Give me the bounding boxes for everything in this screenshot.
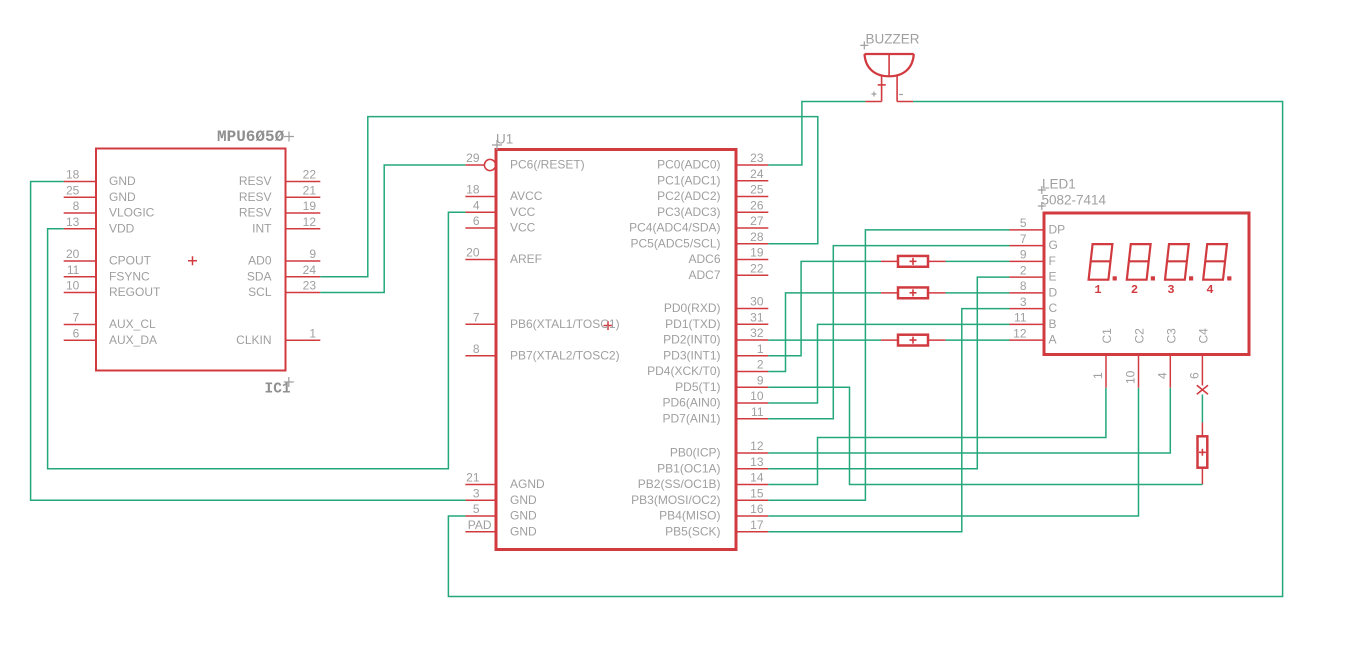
wire IC1 SCL to U1 PC6/RESET — [320, 165, 465, 293]
IC U1 body — [496, 150, 736, 550]
svg-text:E: E — [1049, 270, 1057, 284]
pin 11 FSYNC (IC1 left) — [64, 263, 150, 283]
svg-text:AUX_DA: AUX_DA — [109, 333, 157, 347]
svg-text:1: 1 — [757, 342, 764, 356]
pin 6 AUX_DA (IC1 left) — [64, 326, 157, 346]
pin 20 AREF (U1 left) — [465, 246, 542, 266]
svg-text:PB6(XTAL1/TOSC1): PB6(XTAL1/TOSC1) — [510, 317, 620, 331]
svg-text:RESV: RESV — [239, 174, 272, 188]
wire net F right: LED1 F to R1 — [946, 260, 1010, 262]
svg-text:PC2(ADC2): PC2(ADC2) — [657, 189, 720, 203]
svg-text:8: 8 — [473, 342, 480, 356]
svg-text:8: 8 — [73, 199, 80, 213]
pin 17 PB5(SCK) (U1 right) — [665, 518, 768, 538]
buzzer pin + stub — [865, 101, 881, 103]
svg-text:10: 10 — [750, 389, 764, 403]
svg-text:PC0(ADC0): PC0(ADC0) — [657, 158, 720, 172]
svg-text:9: 9 — [309, 247, 316, 261]
svg-text:16: 16 — [750, 502, 764, 516]
svg-text:22: 22 — [303, 168, 317, 182]
buzzer pin - stub — [897, 101, 913, 103]
svg-text:VCC: VCC — [510, 205, 536, 219]
svg-text:11: 11 — [1014, 311, 1027, 325]
svg-text:RESV: RESV — [239, 190, 272, 204]
pin 3 GND (U1 left) — [465, 486, 537, 506]
svg-text:6: 6 — [473, 214, 480, 228]
pin 24 PC1(ADC1) (U1 right) — [657, 167, 768, 187]
pin 12 A (LED1 left) — [1010, 326, 1057, 346]
IC1 origin cross (red) — [188, 256, 197, 265]
svg-text:AUX_CL: AUX_CL — [109, 317, 156, 331]
svg-text:D: D — [1049, 285, 1058, 299]
svg-text:7: 7 — [473, 310, 480, 324]
pin 8 VLOGIC (IC1 left) — [64, 199, 155, 219]
svg-text:5: 5 — [473, 502, 480, 516]
svg-text:C3: C3 — [1164, 328, 1178, 344]
svg-text:7: 7 — [1020, 232, 1027, 246]
wire IC1 VDD to U1 VCC pin4 — [48, 212, 466, 469]
svg-text:28: 28 — [750, 230, 764, 244]
pin 6 C4 (LED1 bottom) — [1187, 328, 1210, 386]
pin 12 PB0(ICP) (U1 right) — [670, 439, 768, 459]
pin 8 PB7(XTAL2/TOSC2) (U1 left) — [465, 342, 619, 362]
wire U1 PB4 to LED1 C2 — [768, 388, 1138, 516]
svg-text:13: 13 — [66, 215, 80, 229]
svg-text:AD0: AD0 — [248, 254, 272, 268]
svg-text:8: 8 — [1020, 279, 1027, 293]
wire U1 PB0 to LED1 C3 — [768, 388, 1170, 453]
svg-text:27: 27 — [750, 214, 764, 228]
pin 4 C3 (LED1 bottom) — [1155, 328, 1178, 388]
svg-text:C1: C1 — [1100, 328, 1114, 344]
pin 24 SDA (IC1 right) — [247, 263, 320, 283]
buzzer origin cross — [860, 41, 868, 49]
pin PAD GND (U1 left) — [465, 518, 537, 538]
wire BUZZER- to GND ring (U1 GND pin5) — [448, 102, 1282, 597]
svg-text:GND: GND — [510, 524, 537, 538]
svg-text:4: 4 — [1155, 372, 1169, 379]
svg-text:24: 24 — [303, 263, 317, 277]
svg-text:17: 17 — [750, 518, 764, 532]
svg-text:F: F — [1049, 254, 1056, 268]
svg-text:18: 18 — [66, 168, 80, 182]
pin 2 E (LED1 left) — [1010, 263, 1057, 283]
pin 19 ADC6 (U1 right) — [688, 246, 768, 266]
svg-text:23: 23 — [303, 279, 317, 293]
svg-text:18: 18 — [466, 183, 480, 197]
wire BUZZER+ to U1 PC0 — [768, 102, 865, 166]
svg-text:10: 10 — [66, 279, 80, 293]
svg-text:PAD: PAD — [468, 518, 492, 532]
wire net C: LED1 C to U1 PB5 — [768, 309, 1009, 532]
svg-text:6: 6 — [73, 326, 80, 340]
pin 1 PD3(INT1) (U1 right) — [663, 342, 768, 362]
svg-text:SCL: SCL — [248, 285, 272, 299]
pin 25 GND (IC1 left) — [64, 183, 136, 203]
pin 13 VDD (IC1 left) — [64, 215, 135, 235]
svg-text:3: 3 — [473, 486, 480, 500]
svg-text:25: 25 — [66, 183, 80, 197]
pin 8 D (LED1 left) — [1010, 279, 1058, 299]
svg-text:PC3(ADC3): PC3(ADC3) — [657, 205, 720, 219]
unconnected marker x on pin C4 — [1197, 385, 1208, 394]
svg-text:4: 4 — [473, 198, 480, 212]
pin 7 PB6(XTAL1/TOSC1) (U1 left) — [465, 310, 619, 330]
svg-text:PB7(XTAL2/TOSC2): PB7(XTAL2/TOSC2) — [510, 348, 620, 362]
svg-text:5082-7414: 5082-7414 — [1042, 193, 1107, 208]
svg-text:GND: GND — [109, 190, 136, 204]
LED1 digit index numbers 1-4 (red) — [1094, 283, 1213, 297]
svg-text:CPOUT: CPOUT — [109, 254, 152, 268]
svg-text:PD2(INT0): PD2(INT0) — [663, 333, 720, 347]
wire net A right: LED1 A to R3 — [946, 339, 1010, 341]
svg-text:PD5(T1): PD5(T1) — [675, 380, 720, 394]
svg-text:12: 12 — [1013, 326, 1027, 340]
svg-text:CLKIN: CLKIN — [236, 333, 271, 347]
pin 23 PC0(ADC0) (U1 right) — [657, 151, 768, 171]
pin 32 PD2(INT0) (U1 right) — [663, 326, 768, 346]
pin 18 GND (IC1 left) — [64, 168, 136, 188]
svg-text:32: 32 — [750, 326, 764, 340]
pin 25 PC2(ADC2) (U1 right) — [657, 183, 768, 203]
resistor R4 (vertical, C4 net) — [1198, 423, 1208, 485]
svg-text:26: 26 — [750, 198, 764, 212]
svg-text:PB1(OC1A): PB1(OC1A) — [657, 461, 720, 475]
pin 22 RESV (IC1 right) — [239, 168, 320, 188]
svg-text:B: B — [1049, 317, 1057, 331]
pin 1 CLKIN (IC1 right) — [236, 326, 320, 346]
svg-text:ADC7: ADC7 — [688, 268, 720, 282]
resistor R1 (segment F) — [881, 256, 946, 267]
svg-text:7: 7 — [73, 311, 80, 325]
buzzer leads and polarity — [872, 75, 904, 102]
svg-text:PB2(SS/OC1B): PB2(SS/OC1B) — [638, 477, 721, 491]
svg-text:LED1: LED1 — [1042, 177, 1076, 192]
svg-text:MPU6Ø5Ø: MPU6Ø5Ø — [217, 128, 285, 146]
svg-text:19: 19 — [303, 199, 317, 213]
svg-text:VLOGIC: VLOGIC — [109, 206, 155, 220]
wire net A left: R3 to U1 PD2 — [768, 339, 881, 341]
resistor R3 (segment A) — [881, 335, 946, 346]
svg-text:PB0(ICP): PB0(ICP) — [670, 446, 721, 460]
svg-text:PB4(MISO): PB4(MISO) — [659, 509, 720, 523]
LED1 refdes origin cross — [1038, 186, 1046, 194]
pin 12 INT (IC1 right) — [252, 215, 320, 235]
svg-text:15: 15 — [750, 486, 764, 500]
svg-text:VDD: VDD — [109, 221, 135, 235]
wire IC1 GND18 to U1 GND pin3 — [31, 182, 466, 501]
svg-text:PC5(ADC5/SCL): PC5(ADC5/SCL) — [630, 236, 720, 250]
pin 16 PB4(MISO) (U1 right) — [659, 502, 768, 522]
U1 refdes origin cross — [492, 140, 502, 150]
wire net DP: LED1 DP to U1 PB3 — [768, 230, 1009, 500]
pin 4 VCC (U1 left) — [465, 198, 535, 218]
svg-text:C2: C2 — [1133, 328, 1147, 344]
pin 10 PD6(AIN0) (U1 right) — [662, 389, 768, 409]
svg-text:AVCC: AVCC — [510, 189, 543, 203]
svg-text:22: 22 — [750, 261, 764, 275]
svg-text:BUZZER: BUZZER — [866, 32, 920, 47]
pin 6 VCC (U1 left) — [465, 214, 535, 234]
pin 11 B (LED1 left) — [1010, 311, 1057, 331]
svg-text:PD0(RXD): PD0(RXD) — [664, 301, 721, 315]
pin 18 AVCC (U1 left) — [465, 183, 542, 203]
svg-text:SDA: SDA — [247, 269, 272, 283]
pin 31 PD1(TXD) (U1 right) — [665, 310, 768, 330]
svg-text:C: C — [1049, 301, 1058, 315]
svg-text:21: 21 — [303, 183, 317, 197]
svg-text:A: A — [1049, 333, 1057, 347]
svg-text:6: 6 — [1187, 372, 1201, 379]
svg-text:12: 12 — [303, 215, 317, 229]
pin 19 RESV (IC1 right) — [239, 199, 320, 219]
svg-text:3: 3 — [1167, 283, 1174, 297]
svg-text:11: 11 — [751, 405, 764, 419]
svg-text:PC6(/RESET): PC6(/RESET) — [510, 158, 585, 172]
svg-text:4: 4 — [1206, 283, 1213, 297]
svg-text:PD7(AIN1): PD7(AIN1) — [662, 411, 720, 425]
pin 5 DP (LED1 left) — [1010, 216, 1066, 236]
svg-text:GND: GND — [510, 509, 537, 523]
wire net D left: R2 to U1 PD4 — [768, 293, 881, 372]
svg-text:24: 24 — [750, 167, 764, 181]
svg-text:2: 2 — [1131, 283, 1138, 297]
svg-text:U1: U1 — [496, 132, 513, 147]
pin 14 PB2(SS/OC1B) (U1 right) — [638, 471, 769, 491]
svg-text:1: 1 — [1091, 372, 1105, 379]
pin 21 RESV (IC1 right) — [239, 183, 320, 203]
LED1 7-segment digits — [1089, 244, 1232, 280]
svg-text:21: 21 — [466, 471, 480, 485]
svg-text:DP: DP — [1049, 222, 1066, 236]
pin 20 CPOUT (IC1 left) — [64, 247, 152, 267]
svg-text:ADC6: ADC6 — [688, 252, 720, 266]
pin 9 F (LED1 left) — [1010, 248, 1056, 268]
svg-text:PC1(ADC1): PC1(ADC1) — [657, 173, 720, 187]
svg-text:1: 1 — [309, 326, 316, 340]
svg-text:PD3(INT1): PD3(INT1) — [663, 348, 720, 362]
svg-text:5: 5 — [1020, 216, 1027, 230]
svg-text:30: 30 — [750, 295, 764, 309]
pin 26 PC3(ADC3) (U1 right) — [657, 198, 768, 218]
svg-text:20: 20 — [466, 246, 480, 260]
pin 10 REGOUT (IC1 left) — [64, 279, 161, 299]
svg-text:PB5(SCK): PB5(SCK) — [665, 524, 720, 538]
IC1 refdes origin cross — [284, 377, 294, 387]
pin 3 C (LED1 left) — [1010, 295, 1058, 315]
svg-text:2: 2 — [757, 358, 764, 372]
pin 28 PC5(ADC5/SCL) (U1 right) — [630, 230, 768, 250]
pin 21 AGND (U1 left) — [465, 471, 545, 491]
svg-text:10: 10 — [1124, 370, 1138, 384]
svg-text:IC1: IC1 — [265, 382, 291, 398]
IC1 name origin cross — [284, 132, 294, 142]
pin 15 PB3(MOSI/OC2) (U1 right) — [631, 486, 768, 506]
LED1 value origin cross — [1038, 202, 1046, 210]
svg-text:20: 20 — [66, 247, 80, 261]
pin 27 PC4(ADC4/SDA) (U1 right) — [629, 214, 768, 234]
svg-text:GND: GND — [510, 493, 537, 507]
svg-text:RESV: RESV — [239, 206, 272, 220]
display LED1 body — [1044, 213, 1249, 355]
resistor R2 (segment D) — [881, 287, 946, 298]
svg-text:PC4(ADC4/SDA): PC4(ADC4/SDA) — [629, 221, 720, 235]
svg-text:11: 11 — [67, 263, 80, 277]
pin 11 PD7(AIN1) (U1 right) — [662, 405, 768, 425]
svg-text:AREF: AREF — [510, 252, 542, 266]
svg-text:PD6(AIN0): PD6(AIN0) — [662, 396, 720, 410]
pin 9 PD5(T1) (U1 right) — [675, 373, 768, 393]
svg-text:REGOUT: REGOUT — [109, 285, 161, 299]
svg-text:25: 25 — [750, 183, 764, 197]
pin 22 ADC7 (U1 right) — [688, 261, 768, 281]
pin 10 C2 (LED1 bottom) — [1124, 328, 1147, 388]
wire net B: LED1 B to U1 PD6 — [768, 324, 1009, 403]
svg-text:3: 3 — [1020, 295, 1027, 309]
svg-text:9: 9 — [1020, 248, 1027, 262]
svg-text:14: 14 — [750, 471, 764, 485]
wire LED1 C4 to R4 top — [1201, 395, 1203, 423]
svg-text:GND: GND — [109, 174, 136, 188]
svg-text:23: 23 — [750, 151, 764, 165]
wire U1 PB2 to LED1 C1 — [768, 388, 1106, 485]
pin 1 C1 (LED1 bottom) — [1091, 328, 1114, 388]
svg-text:2: 2 — [1020, 263, 1027, 277]
buzzer BUZZER body — [865, 54, 914, 76]
svg-text:PB3(MOSI/OC2): PB3(MOSI/OC2) — [631, 493, 720, 507]
pin 7 G (LED1 left) — [1010, 232, 1058, 252]
svg-text:13: 13 — [750, 455, 764, 469]
pin 29 PC6(/RESET) (U1 left) — [465, 151, 584, 171]
svg-text:31: 31 — [750, 310, 764, 324]
wire net E: LED1 E to U1 PB1 — [768, 277, 1009, 469]
svg-text:PD1(TXD): PD1(TXD) — [665, 317, 720, 331]
wire U1 PD5 to R4 bottom — [768, 387, 1202, 484]
svg-text:PD4(XCK/T0): PD4(XCK/T0) — [647, 364, 720, 378]
svg-text:12: 12 — [750, 439, 764, 453]
pin 7 AUX_CL (IC1 left) — [64, 311, 156, 331]
pin 9 AD0 (IC1 right) — [248, 247, 320, 267]
pin 13 PB1(OC1A) (U1 right) — [657, 455, 768, 475]
pin 23 SCL (IC1 right) — [248, 279, 320, 299]
svg-text:29: 29 — [466, 151, 480, 165]
svg-text:AGND: AGND — [510, 477, 545, 491]
svg-text:19: 19 — [750, 246, 764, 260]
svg-text:C4: C4 — [1196, 328, 1210, 344]
svg-text:1: 1 — [1094, 283, 1101, 297]
IC IC1 MPU6050 body — [96, 149, 286, 371]
pin 2 PD4(XCK/T0) (U1 right) — [647, 358, 768, 378]
svg-text:9: 9 — [757, 373, 764, 387]
svg-text:VCC: VCC — [510, 221, 536, 235]
wire net D right: LED1 D to R2 — [946, 292, 1010, 294]
pin 5 GND (U1 left) — [465, 502, 537, 522]
svg-text:G: G — [1049, 238, 1058, 252]
svg-text:FSYNC: FSYNC — [109, 269, 150, 283]
wire net F left: R1 to U1 PD3 — [768, 261, 881, 355]
wire IC1 SDA to U1 PC5 — [320, 117, 818, 277]
svg-text:INT: INT — [252, 221, 272, 235]
pin 30 PD0(RXD) (U1 right) — [664, 295, 768, 315]
U1 origin cross (red) — [604, 321, 613, 330]
wire net G: LED1 G to U1 PD7 — [768, 246, 1009, 419]
